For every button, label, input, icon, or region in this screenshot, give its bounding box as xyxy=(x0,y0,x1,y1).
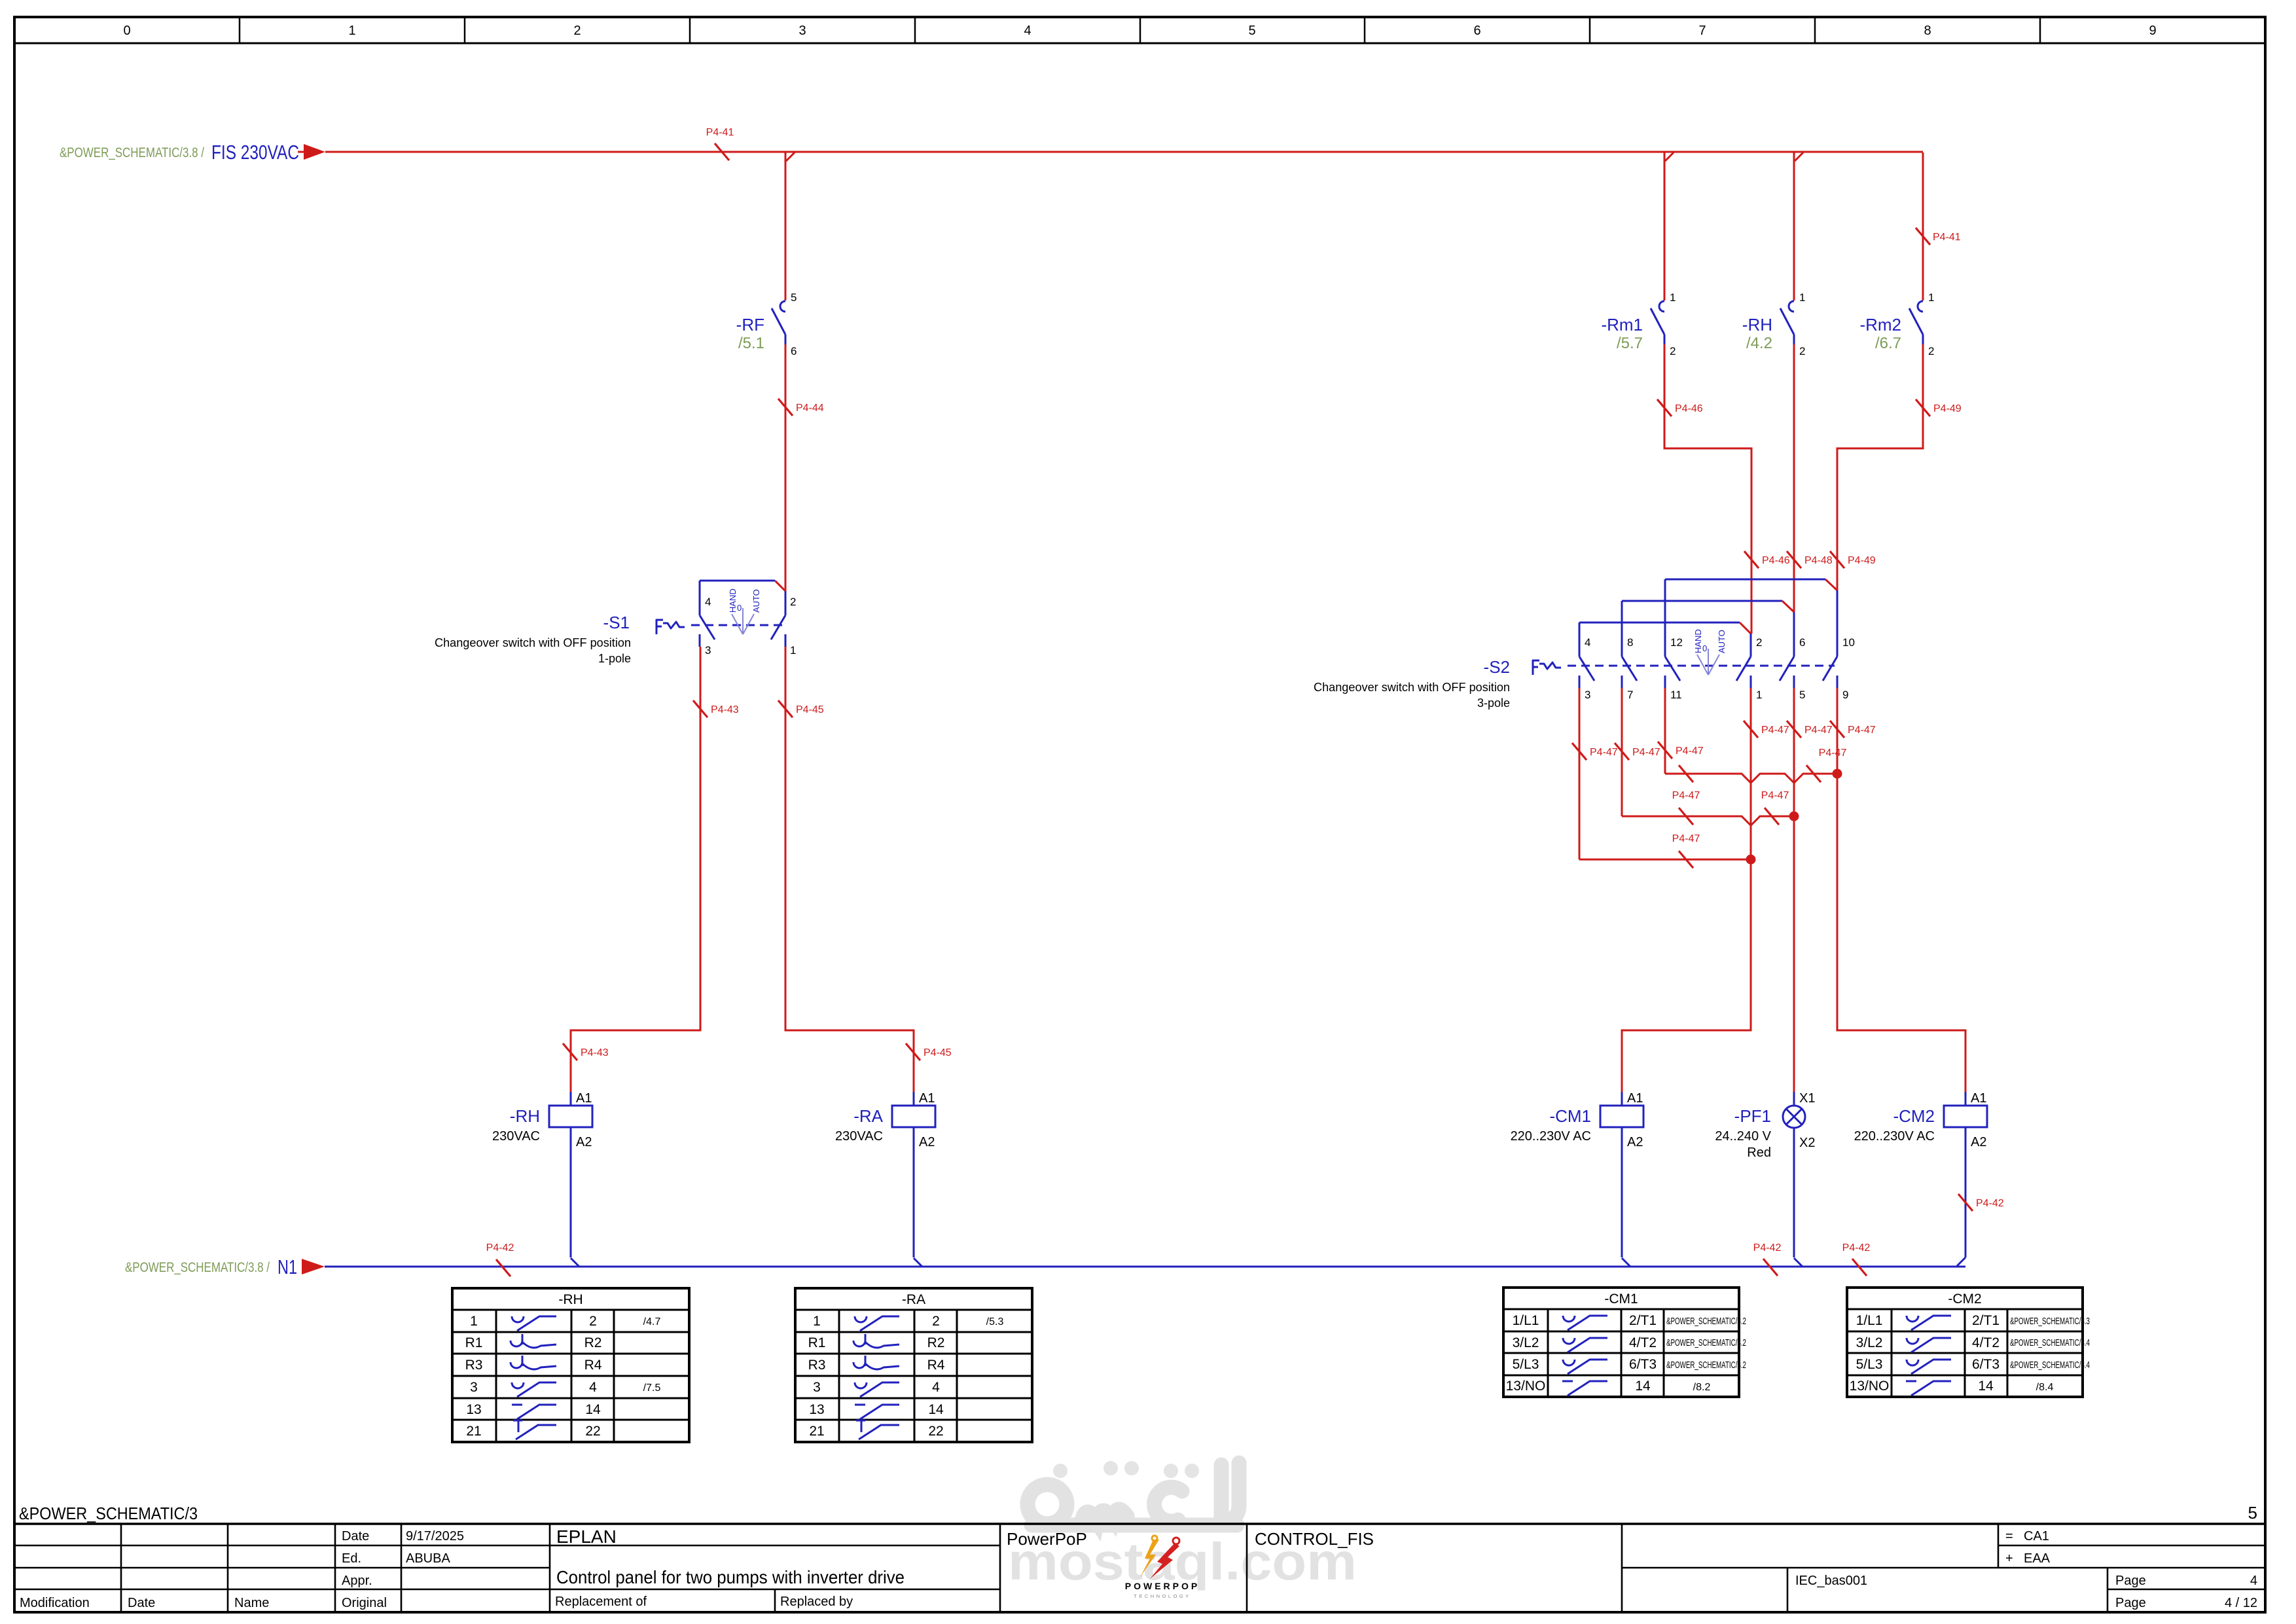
svg-text:P4-47: P4-47 xyxy=(1804,725,1833,736)
svg-text:220..230V AC: 220..230V AC xyxy=(1511,1129,1591,1144)
svg-text:3: 3 xyxy=(705,644,711,657)
svg-text:Red: Red xyxy=(1747,1146,1771,1160)
svg-text:8: 8 xyxy=(1627,636,1633,649)
svg-text:4: 4 xyxy=(705,596,711,608)
svg-text:4: 4 xyxy=(932,1380,940,1395)
svg-text:Page: Page xyxy=(2115,1574,2146,1588)
svg-text:/8.4: /8.4 xyxy=(2036,1382,2054,1393)
svg-text:1/L1: 1/L1 xyxy=(1856,1313,1883,1328)
svg-text:IEC_bas001: IEC_bas001 xyxy=(1795,1574,1867,1588)
svg-text:FIS 230VAC: FIS 230VAC xyxy=(211,141,299,164)
svg-text:&POWER_SCHEMATIC/3.2: &POWER_SCHEMATIC/3.2 xyxy=(1666,1360,1746,1371)
svg-text:220..230V AC: 220..230V AC xyxy=(1854,1129,1935,1144)
svg-text:9: 9 xyxy=(2149,24,2156,38)
svg-text:P4-47: P4-47 xyxy=(1672,790,1700,801)
svg-text:5: 5 xyxy=(1248,24,1255,38)
svg-text:P4-49: P4-49 xyxy=(1848,555,1876,566)
svg-text:Date: Date xyxy=(342,1529,369,1543)
svg-text:-PF1: -PF1 xyxy=(1734,1106,1771,1126)
svg-text:ABUBA: ABUBA xyxy=(406,1551,450,1566)
svg-text:-CM1: -CM1 xyxy=(1604,1291,1638,1307)
svg-text:AUTO: AUTO xyxy=(751,589,761,613)
svg-text:P4-47: P4-47 xyxy=(1761,790,1789,801)
svg-text:A1: A1 xyxy=(576,1091,592,1106)
svg-text:A1: A1 xyxy=(1627,1091,1643,1106)
svg-text:-RA: -RA xyxy=(902,1292,925,1307)
svg-text:2: 2 xyxy=(1756,636,1762,649)
svg-text:4: 4 xyxy=(1585,636,1590,649)
svg-text:Replacement of: Replacement of xyxy=(555,1595,647,1609)
svg-text:9/17/2025: 9/17/2025 xyxy=(406,1529,464,1543)
svg-text:P4-47: P4-47 xyxy=(1590,747,1618,758)
svg-text:EAA: EAA xyxy=(2024,1551,2051,1566)
svg-text:+: + xyxy=(2005,1551,2013,1566)
svg-text:R3: R3 xyxy=(465,1358,483,1373)
svg-text:6/T3: 6/T3 xyxy=(1972,1357,2000,1372)
svg-text:=: = xyxy=(2005,1529,2013,1543)
svg-text:4: 4 xyxy=(1024,24,1031,38)
svg-text:A2: A2 xyxy=(1971,1135,1986,1149)
svg-text:&POWER_SCHEMATIC/3.4: &POWER_SCHEMATIC/3.4 xyxy=(2010,1338,2090,1348)
svg-text:2: 2 xyxy=(1799,345,1805,357)
svg-text:Replaced by: Replaced by xyxy=(780,1595,853,1609)
svg-text:CONTROL_FIS: CONTROL_FIS xyxy=(1255,1529,1374,1549)
svg-text:-S2: -S2 xyxy=(1484,657,1510,677)
svg-text:&POWER_SCHEMATIC/3.2: &POWER_SCHEMATIC/3.2 xyxy=(1666,1316,1746,1327)
svg-text:P4-42: P4-42 xyxy=(1842,1242,1871,1254)
svg-text:14: 14 xyxy=(928,1402,944,1417)
svg-text:3/L2: 3/L2 xyxy=(1856,1335,1883,1350)
svg-text:R4: R4 xyxy=(584,1358,602,1373)
svg-text:2: 2 xyxy=(573,24,581,38)
svg-text:P4-43: P4-43 xyxy=(711,704,739,715)
svg-text:&POWER_SCHEMATIC/3.2: &POWER_SCHEMATIC/3.2 xyxy=(1666,1338,1746,1348)
svg-text:Original: Original xyxy=(342,1596,387,1610)
svg-text:1: 1 xyxy=(790,644,796,657)
svg-text:14: 14 xyxy=(585,1402,601,1417)
svg-text:21: 21 xyxy=(809,1424,824,1439)
svg-text:Appr.: Appr. xyxy=(342,1574,372,1588)
svg-text:/5.1: /5.1 xyxy=(738,334,764,352)
svg-text:0: 0 xyxy=(1702,643,1707,653)
svg-text:2/T1: 2/T1 xyxy=(1629,1313,1657,1328)
svg-text:P4-43: P4-43 xyxy=(581,1047,609,1058)
svg-text:EPLAN: EPLAN xyxy=(556,1526,617,1547)
svg-text:/8.2: /8.2 xyxy=(1693,1382,1711,1393)
svg-text:5: 5 xyxy=(2248,1503,2257,1523)
svg-text:P4-47: P4-47 xyxy=(1676,746,1704,757)
svg-text:/4.7: /4.7 xyxy=(643,1316,661,1327)
svg-text:P4-46: P4-46 xyxy=(1762,555,1790,566)
svg-text:-RH: -RH xyxy=(510,1106,540,1126)
svg-text:-RF: -RF xyxy=(736,315,764,334)
svg-text:Date: Date xyxy=(128,1596,155,1610)
svg-text:HAND: HAND xyxy=(1693,629,1703,653)
svg-text:4/T2: 4/T2 xyxy=(1972,1335,2000,1350)
svg-text:Ed.: Ed. xyxy=(342,1551,361,1566)
svg-text:24..240 V: 24..240 V xyxy=(1715,1129,1771,1144)
svg-text:1: 1 xyxy=(813,1314,821,1329)
svg-text:A1: A1 xyxy=(919,1091,935,1106)
svg-text:4 / 12: 4 / 12 xyxy=(2225,1596,2257,1610)
svg-text:Control panel for two pumps wi: Control panel for two pumps with inverte… xyxy=(556,1567,905,1587)
svg-text:AUTO: AUTO xyxy=(1717,630,1727,653)
svg-text:12: 12 xyxy=(1670,636,1683,649)
svg-text:1: 1 xyxy=(1756,689,1762,701)
svg-text:4: 4 xyxy=(589,1380,597,1395)
svg-text:P4-42: P4-42 xyxy=(1753,1242,1782,1254)
svg-text:P4-42: P4-42 xyxy=(486,1242,514,1254)
svg-text:X1: X1 xyxy=(1799,1091,1815,1106)
svg-text:1: 1 xyxy=(1928,291,1934,304)
svg-text:2: 2 xyxy=(932,1314,940,1329)
svg-text:&POWER_SCHEMATIC/3.3: &POWER_SCHEMATIC/3.3 xyxy=(2010,1316,2090,1327)
svg-text:-RH: -RH xyxy=(558,1292,583,1307)
svg-text:P4-46: P4-46 xyxy=(1675,403,1703,414)
svg-text:2/T1: 2/T1 xyxy=(1972,1313,2000,1328)
svg-text:3: 3 xyxy=(813,1380,821,1395)
svg-text:11: 11 xyxy=(1670,689,1682,701)
svg-text:R1: R1 xyxy=(808,1335,826,1350)
svg-text:Name: Name xyxy=(234,1596,269,1610)
svg-text:CA1: CA1 xyxy=(2024,1529,2049,1543)
svg-text:P4-47: P4-47 xyxy=(1819,748,1847,759)
svg-text:9: 9 xyxy=(1842,689,1848,701)
svg-text:R3: R3 xyxy=(808,1358,826,1373)
svg-text:-Rm2: -Rm2 xyxy=(1859,315,1901,334)
svg-text:21: 21 xyxy=(466,1424,481,1439)
svg-text:Changeover switch with OFF pos: Changeover switch with OFF position xyxy=(1314,681,1510,694)
svg-text:1: 1 xyxy=(1670,291,1676,304)
svg-text:P4-47: P4-47 xyxy=(1672,833,1700,844)
svg-text:P4-45: P4-45 xyxy=(924,1047,952,1058)
svg-text:P4-49: P4-49 xyxy=(1933,403,1962,414)
svg-text:3: 3 xyxy=(1585,689,1590,701)
svg-text:5: 5 xyxy=(1799,689,1805,701)
svg-text:-CM2: -CM2 xyxy=(1948,1291,1981,1307)
svg-text:14: 14 xyxy=(1635,1379,1651,1394)
svg-text:&POWER_SCHEMATIC/3.8 /: &POWER_SCHEMATIC/3.8 / xyxy=(125,1260,270,1275)
svg-text:P4-47: P4-47 xyxy=(1761,725,1789,736)
svg-text:&POWER_SCHEMATIC/3: &POWER_SCHEMATIC/3 xyxy=(19,1504,198,1523)
svg-text:&POWER_SCHEMATIC/3.8 /: &POWER_SCHEMATIC/3.8 / xyxy=(60,145,204,160)
svg-text:R2: R2 xyxy=(584,1335,602,1350)
svg-text:3: 3 xyxy=(470,1380,478,1395)
svg-text:P4-47: P4-47 xyxy=(1848,725,1876,736)
svg-text:P4-42: P4-42 xyxy=(1976,1198,2004,1209)
svg-text:7: 7 xyxy=(1698,24,1706,38)
svg-text:1: 1 xyxy=(348,24,355,38)
svg-text:5/L3: 5/L3 xyxy=(1856,1357,1883,1372)
svg-text:-Rm1: -Rm1 xyxy=(1601,315,1643,334)
svg-text:0: 0 xyxy=(123,24,130,38)
svg-text:8: 8 xyxy=(1924,24,1931,38)
svg-text:2: 2 xyxy=(1928,345,1934,357)
svg-text:R4: R4 xyxy=(927,1358,945,1373)
svg-text:3: 3 xyxy=(798,24,806,38)
svg-text:22: 22 xyxy=(928,1424,943,1439)
svg-text:-S1: -S1 xyxy=(603,613,630,632)
svg-text:A2: A2 xyxy=(576,1135,592,1149)
svg-text:5: 5 xyxy=(791,291,797,304)
svg-text:4: 4 xyxy=(2250,1574,2257,1588)
svg-text:1/L1: 1/L1 xyxy=(1513,1313,1539,1328)
svg-text:/5.7: /5.7 xyxy=(1617,334,1643,352)
svg-text:R2: R2 xyxy=(927,1335,945,1350)
svg-text:1: 1 xyxy=(470,1314,478,1329)
svg-text:2: 2 xyxy=(790,596,796,608)
svg-text:10: 10 xyxy=(1842,636,1855,649)
svg-text:1-pole: 1-pole xyxy=(598,652,631,665)
svg-text:POWERPOP: POWERPOP xyxy=(1125,1581,1200,1591)
svg-text:2: 2 xyxy=(1670,345,1676,357)
svg-text:/5.3: /5.3 xyxy=(986,1316,1004,1327)
svg-text:/4.2: /4.2 xyxy=(1746,334,1772,352)
svg-text:3/L2: 3/L2 xyxy=(1513,1335,1539,1350)
svg-text:Changeover switch with OFF pos: Changeover switch with OFF position xyxy=(435,636,631,649)
svg-text:3-pole: 3-pole xyxy=(1477,696,1510,710)
svg-text:/7.5: /7.5 xyxy=(643,1382,661,1394)
svg-text:P4-41: P4-41 xyxy=(706,127,734,138)
svg-text:14: 14 xyxy=(1978,1379,1994,1394)
svg-text:P4-47: P4-47 xyxy=(1632,747,1660,758)
svg-text:230VAC: 230VAC xyxy=(835,1129,883,1144)
svg-text:6/T3: 6/T3 xyxy=(1629,1357,1657,1372)
svg-text:6: 6 xyxy=(1799,636,1805,649)
svg-text:N1: N1 xyxy=(278,1255,297,1278)
svg-text:P4-44: P4-44 xyxy=(796,403,824,414)
svg-text:1: 1 xyxy=(1799,291,1805,304)
svg-text:P4-41: P4-41 xyxy=(1933,232,1961,243)
svg-text:X2: X2 xyxy=(1799,1136,1815,1150)
svg-text:R1: R1 xyxy=(465,1335,483,1350)
svg-text:PowerPoP: PowerPoP xyxy=(1007,1529,1087,1549)
svg-text:7: 7 xyxy=(1627,689,1633,701)
svg-text:A2: A2 xyxy=(1627,1135,1643,1149)
svg-text:-CM1: -CM1 xyxy=(1549,1106,1591,1126)
svg-text:22: 22 xyxy=(585,1424,600,1439)
svg-text:230VAC: 230VAC xyxy=(492,1129,540,1144)
svg-text:13: 13 xyxy=(809,1402,824,1417)
svg-text:6: 6 xyxy=(1473,24,1480,38)
svg-text:Modification: Modification xyxy=(20,1596,90,1610)
svg-text:13/NO: 13/NO xyxy=(1506,1379,1546,1394)
svg-text:13: 13 xyxy=(466,1402,481,1417)
svg-text:Page: Page xyxy=(2115,1596,2146,1610)
svg-text:-RA: -RA xyxy=(853,1106,883,1126)
svg-text:-CM2: -CM2 xyxy=(1893,1106,1935,1126)
svg-text:6: 6 xyxy=(791,345,797,357)
svg-text:TECHNOLOGY: TECHNOLOGY xyxy=(1134,1593,1191,1599)
svg-text:HAND: HAND xyxy=(728,588,738,613)
svg-text:13/NO: 13/NO xyxy=(1850,1379,1890,1394)
svg-text:2: 2 xyxy=(589,1314,597,1329)
svg-text:5/L3: 5/L3 xyxy=(1513,1357,1539,1372)
svg-text:/6.7: /6.7 xyxy=(1875,334,1901,352)
svg-text:A2: A2 xyxy=(919,1135,935,1149)
svg-text:P4-48: P4-48 xyxy=(1804,555,1833,566)
svg-text:-RH: -RH xyxy=(1742,315,1772,334)
svg-text:P4-45: P4-45 xyxy=(796,704,824,715)
svg-text:0: 0 xyxy=(737,603,742,613)
svg-text:A1: A1 xyxy=(1971,1091,1986,1106)
svg-text:&POWER_SCHEMATIC/3.4: &POWER_SCHEMATIC/3.4 xyxy=(2010,1360,2090,1371)
svg-text:4/T2: 4/T2 xyxy=(1629,1335,1657,1350)
